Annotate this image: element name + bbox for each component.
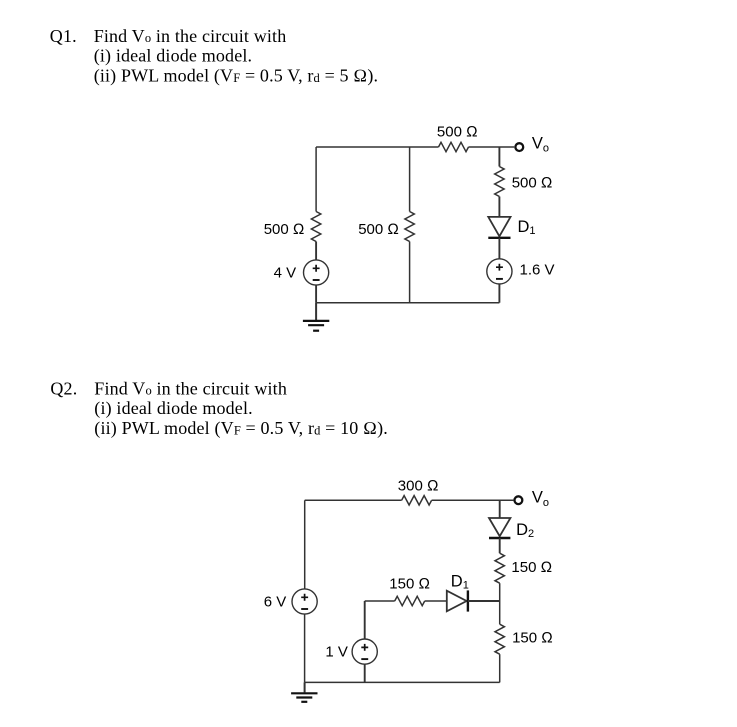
svg-text:4 V: 4 V	[274, 265, 297, 282]
wire between middle resistor and diode D1 (circuit 2)	[425, 600, 447, 602]
resistor R 150 ohm upper right (circuit 2)	[495, 553, 504, 583]
resistor R 300 ohm horizontal (circuit 2 top)	[402, 496, 432, 505]
wire right branch between resistor and diode D1 (circuit 1)	[498, 197, 500, 217]
svg-text:1.6 V: 1.6 V	[520, 262, 555, 279]
wire middle branch bottom (circuit 1)	[409, 242, 411, 303]
wire left branch between resistor and 4V source (circuit 1)	[315, 242, 317, 260]
wire right branch resistor to junction (circuit 2)	[499, 583, 501, 601]
resistor R 500 ohm left vertical (circuit 1)	[311, 212, 320, 242]
svg-text:500 Ω: 500 Ω	[264, 221, 305, 238]
voltage source 6 V circle (circuit 2)	[292, 589, 317, 614]
svg-text:(ii) PWL model (VF = 0.5 V, rd: (ii) PWL model (VF = 0.5 V, rd = 5 Ω).	[94, 65, 378, 86]
wire left branch below 6V source (circuit 2)	[304, 614, 306, 682]
wire right branch below source to bottom rail (circuit 1)	[498, 284, 500, 303]
resistor R 500 ohm horizontal (circuit 1 top)	[439, 142, 469, 151]
plus sign of 1 V source	[361, 644, 368, 651]
svg-text:Q1.: Q1.	[50, 26, 77, 46]
svg-text:500 Ω: 500 Ω	[358, 221, 399, 238]
svg-text:150 Ω: 150 Ω	[389, 576, 430, 593]
wire top rail right segment to output terminal (circuit 1)	[469, 146, 515, 148]
wire bottom rail (circuit 1)	[316, 302, 499, 304]
wire top rail left segment (circuit 2)	[305, 499, 402, 501]
resistor R 500 ohm right vertical (circuit 1)	[495, 167, 504, 197]
diode D2 cathode bar (circuit 2)	[489, 537, 510, 539]
wire middle branch top (circuit 1)	[409, 147, 411, 212]
ground stem (circuit 2)	[304, 682, 306, 692]
diode D1 cathode bar (circuit 1)	[488, 237, 510, 239]
svg-text:300 Ω: 300 Ω	[398, 478, 439, 495]
voltage source 1 V circle (circuit 2)	[352, 639, 377, 664]
resistor R 150 ohm middle horizontal (circuit 2)	[395, 596, 425, 605]
svg-text:150 Ω: 150 Ω	[512, 630, 553, 647]
wire right branch between D2 and upper 150 ohm resistor (circuit 2)	[499, 538, 501, 553]
diode D1 triangle (circuit 1)	[488, 217, 510, 236]
wire top rail right segment to output terminal (circuit 2)	[432, 499, 514, 501]
ground bar 1 (circuit 1)	[303, 320, 329, 322]
svg-text:6 V: 6 V	[264, 593, 287, 610]
voltage source 4 V circle (circuit 1)	[304, 260, 329, 285]
wire right branch between diode and 1.6V source (circuit 1)	[498, 238, 500, 259]
diode D1 cathode bar (circuit 2)	[467, 590, 469, 611]
wire bottom rail (circuit 2)	[305, 681, 500, 683]
ground stem (circuit 1)	[315, 303, 317, 320]
svg-text:(i) ideal diode model.: (i) ideal diode model.	[94, 398, 252, 419]
wire below 1V source to bottom rail (circuit 2)	[364, 664, 366, 682]
ground bar 3 (circuit 2)	[301, 701, 307, 703]
wire top rail left segment (circuit 1)	[316, 146, 438, 148]
wire left branch top (circuit 2)	[304, 500, 306, 589]
plus sign of 6 V source	[301, 594, 308, 601]
wire diode D1 to junction (circuit 2)	[468, 600, 500, 602]
diode D2 triangle (circuit 2)	[489, 518, 510, 536]
wire middle branch from 1V source up to corner (circuit 2)	[364, 601, 366, 639]
diode D1 triangle (circuit 2)	[447, 591, 467, 612]
minus sign of 1 V source	[361, 658, 368, 660]
wire left branch top (circuit 1)	[315, 147, 317, 212]
plus sign of 1.6 V source	[496, 264, 503, 271]
voltage source 1.6 V circle (circuit 1)	[487, 259, 512, 284]
minus sign of 6 V source	[301, 608, 308, 610]
svg-text:Find Vo in the circuit with: Find Vo in the circuit with	[94, 379, 287, 399]
wire right branch junction to lower resistor (circuit 2)	[499, 601, 501, 624]
minus sign of 4 V source	[313, 279, 320, 281]
wire right branch from top rail to diode D2 (circuit 2)	[499, 500, 501, 518]
svg-text:(ii) PWL model (VF = 0.5 V, rd: (ii) PWL model (VF = 0.5 V, rd = 10 Ω).	[94, 418, 388, 439]
svg-text:Vo: Vo	[532, 134, 549, 154]
minus sign of 1.6 V source	[496, 278, 503, 280]
svg-text:1 V: 1 V	[325, 644, 348, 661]
node Vo output terminal (circuit 1)	[515, 143, 523, 151]
ground bar 2 (circuit 1)	[308, 324, 324, 326]
plus sign of 4 V source	[313, 265, 320, 272]
svg-text:D1: D1	[451, 573, 469, 592]
svg-text:(i) ideal diode model.: (i) ideal diode model.	[94, 46, 252, 67]
resistor R 150 ohm lower right (circuit 2)	[495, 624, 504, 654]
wire left branch below source (circuit 1)	[315, 285, 317, 303]
wire right branch top (circuit 1)	[498, 147, 500, 167]
svg-text:D1: D1	[518, 218, 536, 237]
svg-text:150 Ω: 150 Ω	[511, 559, 552, 576]
svg-text:500 Ω: 500 Ω	[437, 123, 478, 140]
ground bar 3 (circuit 1)	[313, 330, 319, 332]
svg-text:Q2.: Q2.	[50, 379, 77, 399]
svg-text:D2: D2	[516, 521, 534, 540]
wire right branch to bottom rail (circuit 2)	[499, 654, 501, 682]
node Vo output terminal (circuit 2)	[515, 496, 523, 504]
wire middle branch horizontal to 150 ohm resistor (circuit 2)	[365, 600, 395, 602]
svg-text:Find Vo in the circuit with: Find Vo in the circuit with	[94, 26, 287, 46]
svg-text:Vo: Vo	[532, 489, 549, 509]
ground bar 2 (circuit 2)	[296, 696, 312, 698]
ground bar 1 (circuit 2)	[291, 692, 317, 694]
svg-text:500 Ω: 500 Ω	[512, 174, 553, 191]
resistor R 500 ohm middle vertical (circuit 1)	[405, 212, 414, 242]
